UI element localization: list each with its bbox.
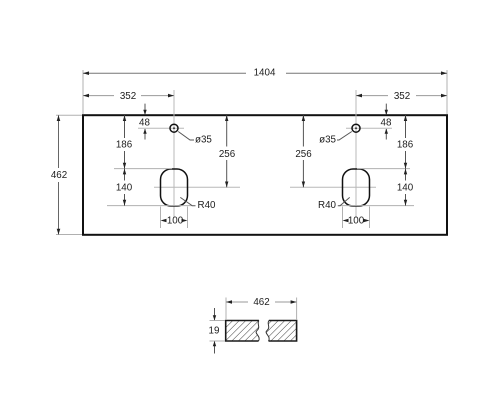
svg-text:ø35: ø35 (319, 135, 336, 146)
svg-text:1404: 1404 (254, 68, 276, 79)
dimension 462 left (51, 115, 67, 234)
svg-text:48: 48 (381, 118, 392, 129)
extension lines 100 right (343, 207, 370, 229)
dimension 1404 (83, 68, 447, 79)
extension lines 462 left dim (56, 115, 82, 234)
dimension 140 right (397, 169, 414, 206)
dimension 186 right (397, 115, 414, 168)
label ⌀35 right with leader (319, 132, 352, 146)
dimension 186 left (116, 115, 133, 168)
countertop slab outline (83, 115, 447, 235)
dimension 352 left (83, 91, 174, 102)
centerline right unit (355, 90, 357, 218)
svg-text:186: 186 (116, 140, 133, 151)
dimension 256 right (295, 115, 312, 187)
svg-text:100: 100 (348, 216, 365, 227)
label R40 left with leader (180, 197, 216, 210)
svg-text:R40: R40 (198, 200, 217, 211)
label R40 right with leader (318, 197, 350, 210)
dimension 48 right (381, 104, 392, 140)
svg-text:256: 256 (295, 149, 312, 160)
dimension 48 left (139, 104, 150, 140)
extension line slab top-right for 1404 (446, 70, 448, 114)
svg-text:48: 48 (139, 118, 150, 129)
sink cutout right (rounded rect R40) (343, 169, 370, 206)
dimension 100 left (161, 216, 188, 227)
svg-text:19: 19 (209, 326, 220, 337)
sink centerline horizontal left (154, 186, 240, 188)
svg-text:352: 352 (394, 91, 410, 102)
extension lines 462 bottom dim (226, 298, 297, 321)
dimension 256 left (219, 115, 236, 187)
sink centerline horizontal right (290, 186, 376, 188)
extension line oval bottom left (107, 205, 192, 207)
svg-text:352: 352 (120, 91, 136, 102)
section right piece with break line (266, 321, 297, 342)
svg-text:462: 462 (253, 297, 269, 308)
dimension 352 right (356, 91, 447, 102)
svg-text:R40: R40 (318, 200, 337, 211)
dimension 19 (209, 308, 220, 354)
centerline left unit (173, 90, 175, 218)
svg-text:100: 100 (167, 216, 184, 227)
dimension 462 bottom (226, 297, 297, 308)
extension line oval top left (114, 168, 172, 170)
faucet center horizontal extension right (346, 127, 392, 129)
extension line oval top right (357, 168, 410, 170)
extension lines 100 left (161, 207, 188, 229)
dimension 140 left (116, 169, 133, 206)
svg-text:462: 462 (51, 170, 67, 181)
sink cutout left (rounded rect R40) (161, 169, 188, 206)
svg-text:186: 186 (397, 140, 414, 151)
faucet hole left (⌀35) (170, 124, 178, 132)
svg-text:140: 140 (397, 182, 414, 193)
faucet hole right (⌀35) (352, 124, 360, 132)
section left piece with break line (226, 321, 259, 342)
svg-text:140: 140 (116, 182, 133, 193)
extension line slab top-left for 1404 (82, 70, 84, 114)
faucet center horizontal extension left (138, 127, 184, 129)
svg-text:256: 256 (219, 149, 236, 160)
extension lines 19 dim (210, 321, 226, 342)
label ⌀35 left with leader (178, 132, 212, 146)
dimension 100 right (343, 216, 370, 227)
svg-text:ø35: ø35 (195, 135, 212, 146)
extension line oval bottom right (339, 205, 414, 207)
